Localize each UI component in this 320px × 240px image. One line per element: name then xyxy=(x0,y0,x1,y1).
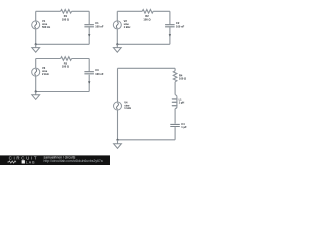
wire: between L1 and C4 xyxy=(174,109,176,124)
wire: V2 top stub up to top rail xyxy=(116,11,118,21)
wire: right rail down to C3 xyxy=(88,59,90,72)
svg-text:C3: C3 xyxy=(95,68,99,72)
capacitor C2 xyxy=(165,25,175,27)
resistor R4 (vertical) xyxy=(173,71,177,82)
label C2 xyxy=(176,21,185,29)
label R1 xyxy=(62,14,69,21)
watermark background bar xyxy=(0,155,110,165)
wire: top rail left segment to R2 xyxy=(117,10,142,12)
wire: top rail circuit 4 xyxy=(118,67,176,69)
junction dot circuit 4 xyxy=(116,139,118,141)
junction dot circuit 3 xyxy=(35,90,37,92)
svg-text:C2: C2 xyxy=(176,21,180,25)
label C4 xyxy=(181,122,187,129)
voltage source V2 xyxy=(113,21,121,29)
svg-text:100 Ω: 100 Ω xyxy=(143,17,150,21)
label C1 xyxy=(95,21,104,29)
label V4 xyxy=(124,100,131,110)
svg-text:2 kHz: 2 kHz xyxy=(42,72,49,76)
watermark line 1: user / circuit name xyxy=(44,155,76,159)
label V3 xyxy=(42,66,49,76)
CircuitLab logo resistor zigzag xyxy=(7,161,16,163)
resistor R1 xyxy=(61,10,72,14)
wire: bottom rail circuit 2 xyxy=(117,43,170,45)
capacitor C4 xyxy=(170,124,180,126)
wire: V2 bottom stub to ground junction xyxy=(116,29,118,44)
voltage source V3 xyxy=(32,68,40,76)
junction dot circuit 2 xyxy=(116,43,118,45)
wire: top rail left segment to R1 xyxy=(36,10,61,12)
wire: top rail from R2 to right rail xyxy=(153,10,170,12)
label V2 xyxy=(124,19,131,29)
svg-text:500 Hz: 500 Hz xyxy=(42,25,51,29)
wire: V4 top stub up to top rail xyxy=(117,68,119,102)
voltage source V1 xyxy=(32,21,40,29)
svg-text:100 nF: 100 nF xyxy=(176,25,185,29)
label R4 xyxy=(179,73,186,80)
capacitor C3 xyxy=(84,72,94,74)
CircuitLab logo LAB xyxy=(22,160,36,164)
inductor L1 xyxy=(172,95,177,109)
svg-text:1 μH: 1 μH xyxy=(179,101,185,105)
wire: V1 top stub up to top rail xyxy=(35,11,37,21)
svg-text:100 Ω: 100 Ω xyxy=(179,77,186,81)
wire: right rail down to C2 xyxy=(169,11,171,24)
wire: below C4 to bottom rail xyxy=(174,127,176,140)
svg-text:1 μF: 1 μF xyxy=(181,125,187,129)
svg-text:C1: C1 xyxy=(95,21,99,25)
wire: top rail from R3 to right rail xyxy=(72,58,90,60)
current arrow on C1 branch xyxy=(88,34,90,36)
ground (circuit 1) xyxy=(32,44,40,52)
ground (circuit 3) xyxy=(32,92,40,100)
svg-text:1 kHz: 1 kHz xyxy=(124,25,131,29)
voltage source V4 xyxy=(114,102,122,110)
wire: V3 bottom stub to ground junction xyxy=(35,76,37,91)
svg-text:100 Ω: 100 Ω xyxy=(62,17,69,21)
svg-text:http://circuitlab.com/c6kkuh6u: http://circuitlab.com/c6kkuh6uvbs2y67a xyxy=(44,159,103,163)
svg-text:100 Ω: 100 Ω xyxy=(62,65,69,69)
svg-text:100 nF: 100 nF xyxy=(95,25,104,29)
wire: bottom rail xyxy=(36,43,89,45)
current arrow on C3 branch xyxy=(88,81,90,83)
label V1 xyxy=(42,19,51,29)
label R2 xyxy=(143,14,150,21)
wire: top rail left segment to R3 xyxy=(36,58,61,60)
wire: V1 bottom stub to ground junction xyxy=(35,29,37,44)
wire: V4 bottom stub to ground junction xyxy=(117,110,119,140)
wire: bottom rail circuit 4 xyxy=(118,139,176,141)
watermark line 2: circuitlab address text xyxy=(44,159,103,163)
CircuitLab logo text CIRCUIT xyxy=(9,156,39,161)
wire: top rail from R1 to right rail xyxy=(72,10,90,12)
wire: right rail down to C1 xyxy=(88,11,90,24)
wire: bottom rail circuit 3 xyxy=(36,91,89,93)
svg-text:100 nF: 100 nF xyxy=(95,72,104,76)
ground (circuit 4) xyxy=(114,140,122,149)
wire: below C1 down to bottom rail xyxy=(88,28,90,45)
resistor R2 xyxy=(142,10,153,14)
capacitor C1 xyxy=(84,25,94,27)
current arrow on C2 branch xyxy=(169,34,171,36)
wire: V3 top stub up to top rail xyxy=(35,59,37,69)
junction dot circuit 1 xyxy=(35,43,37,45)
wire: right branch top stub to R4 xyxy=(174,68,176,71)
svg-text:1 kHz: 1 kHz xyxy=(124,106,131,110)
label R3 xyxy=(62,61,69,68)
wire: below C3 down to bottom rail xyxy=(88,75,90,92)
label C3 xyxy=(95,68,104,76)
resistor R3 xyxy=(61,57,72,61)
wire: below C2 down to bottom rail xyxy=(169,28,171,45)
ground (circuit 2) xyxy=(113,44,121,52)
label L1 xyxy=(179,97,185,104)
svg-text:LAB: LAB xyxy=(26,160,36,164)
wire: between R4 and L1 xyxy=(174,82,176,95)
